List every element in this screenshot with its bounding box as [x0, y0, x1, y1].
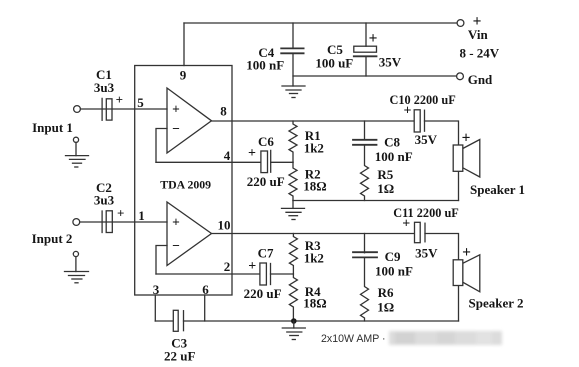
svg-text:−: −	[172, 121, 180, 136]
speaker SP1 body	[453, 145, 463, 171]
svg-text:5: 5	[137, 95, 144, 110]
svg-text:+: +	[172, 214, 180, 229]
svg-text:+: +	[117, 206, 124, 221]
node input 1 terminal	[74, 106, 81, 113]
svg-text:+: +	[172, 101, 180, 116]
speaker SP2 cone	[463, 255, 480, 292]
junction dot at ground node	[291, 318, 297, 324]
capacitor C6 line plate	[270, 150, 272, 172]
wire pin 5 input wire	[81, 108, 168, 110]
watermark blur blocks	[389, 331, 502, 345]
ground below input 2	[73, 251, 78, 256]
resistor R4 (18 ohm)	[289, 274, 297, 321]
svg-text:+: +	[248, 259, 256, 274]
resistor R3 (1k2)	[289, 234, 297, 275]
speaker SP2 body	[453, 260, 463, 286]
wire op-amp U1B feedback (inverting input to pin2 line)	[156, 246, 167, 275]
svg-text:9: 9	[180, 68, 187, 83]
svg-text:Speaker 2: Speaker 2	[468, 296, 523, 311]
node input 2 terminal	[73, 219, 80, 226]
svg-text:35V: 35V	[379, 54, 402, 69]
capacitor C4 plates	[281, 47, 303, 49]
capacitor C2 (3u3) box plate	[106, 211, 112, 233]
svg-text:22 uF: 22 uF	[164, 348, 195, 363]
capacitor C4 bottom stub through Gnd rail	[292, 53, 294, 86]
svg-text:18Ω: 18Ω	[303, 296, 326, 311]
svg-text:3u3: 3u3	[94, 80, 115, 95]
IC U1 TDA2009 package outline	[135, 66, 232, 296]
svg-text:8 - 24V: 8 - 24V	[459, 46, 499, 61]
wire C11 to speaker 2	[425, 234, 459, 322]
svg-text:3u3: 3u3	[94, 193, 115, 208]
wire pin9 drop from Vin rail to IC top	[183, 23, 185, 66]
capacitor C2 (3u3) line plate	[101, 211, 103, 233]
svg-text:C6: C6	[258, 134, 274, 149]
svg-text:1Ω: 1Ω	[377, 300, 394, 315]
svg-text:+: +	[369, 30, 378, 47]
svg-text:+: +	[462, 130, 471, 147]
svg-text:−: −	[172, 238, 180, 253]
wire pin 4 line (feedback node to C6)	[156, 161, 261, 163]
capacitor C11 line plate	[424, 223, 426, 242]
svg-text:R5: R5	[377, 167, 393, 182]
capacitor C5 (100 uF) top stub	[365, 23, 367, 46]
capacitor C1 (3u3) box plate	[106, 99, 112, 120]
svg-text:1Ω: 1Ω	[377, 181, 394, 196]
svg-text:2: 2	[224, 259, 231, 274]
svg-text:100 nF: 100 nF	[375, 149, 413, 164]
wire bottom rail C3 to speaker 2	[184, 320, 459, 322]
op-amp U1A triangle	[167, 88, 212, 153]
capacitor C8 (100 nF) top stub	[364, 121, 366, 140]
wire pin 10 output line	[212, 233, 415, 235]
node Vin terminal	[457, 20, 464, 27]
svg-text:+: +	[116, 92, 123, 107]
svg-text:Input 2: Input 2	[32, 231, 73, 246]
svg-text:C7: C7	[258, 246, 274, 261]
capacitor C8 plates	[353, 139, 377, 141]
op-amp U1B triangle	[167, 202, 212, 266]
capacitor C5 line plate	[354, 55, 377, 57]
capacitor C10 line plate	[424, 110, 426, 131]
svg-text:35V: 35V	[415, 132, 438, 147]
svg-text:Speaker 1: Speaker 1	[470, 182, 525, 197]
svg-text:10: 10	[218, 218, 231, 233]
capacitor C1 (3u3) line plate	[101, 98, 103, 120]
capacitor C9 plates	[353, 251, 377, 253]
svg-text:35V: 35V	[415, 246, 438, 261]
ground below C4	[282, 85, 305, 87]
svg-text:C8: C8	[384, 135, 400, 150]
wire pin 3 drop	[154, 295, 156, 321]
svg-text:100 nF: 100 nF	[375, 264, 413, 279]
svg-text:Gnd: Gnd	[468, 72, 493, 87]
svg-text:220 uF: 220 uF	[244, 286, 282, 301]
svg-text:C9: C9	[385, 249, 401, 264]
capacitor C10 (2200 uF) box plate	[414, 110, 420, 132]
speaker SP1 cone	[463, 140, 480, 178]
capacitor C6 (220 uF) box plate	[261, 151, 268, 173]
capacitor C4 (100 nF) top stub	[292, 23, 294, 48]
resistor R5 (1 ohm) below C8	[361, 145, 369, 201]
resistor R1 (1k2)	[289, 121, 297, 162]
svg-text:Vin: Vin	[468, 27, 489, 42]
wire C6 to R1/R2 junction	[271, 161, 293, 163]
svg-text:+: +	[404, 104, 412, 119]
wire pin 8 output line	[212, 120, 415, 122]
svg-text:100 uF: 100 uF	[315, 55, 353, 70]
svg-text:18Ω: 18Ω	[303, 179, 326, 194]
svg-text:220 uF: 220 uF	[247, 174, 285, 189]
svg-text:1k2: 1k2	[304, 251, 324, 266]
resistor R6 (1 ohm) below C9	[361, 258, 369, 322]
ground below input 1	[73, 137, 78, 142]
svg-text:1k2: 1k2	[304, 140, 324, 155]
svg-text:R6: R6	[378, 285, 394, 300]
svg-text:C10 2200 uF: C10 2200 uF	[389, 93, 455, 107]
wire bottom rail left of C3	[155, 320, 173, 322]
wire pin 6 drop	[204, 295, 206, 321]
wire C10 to speaker 1	[425, 121, 459, 201]
wire pin 1 input wire	[80, 221, 167, 223]
svg-text:TDA 2009: TDA 2009	[160, 177, 211, 191]
capacitor C7 (220 uF) box plate	[260, 263, 267, 285]
svg-text:6: 6	[202, 282, 209, 297]
svg-text:4: 4	[224, 148, 231, 163]
capacitor C3 (22 uF) box plate	[173, 310, 178, 331]
svg-text:3: 3	[153, 282, 160, 297]
wire Vin top rail	[184, 22, 457, 24]
wire C7 to R3/R4 junction	[271, 273, 294, 275]
capacitor C3 line plate	[183, 311, 185, 331]
node Gnd terminal	[457, 73, 464, 80]
wire speaker 1 bottom rail	[293, 200, 459, 202]
capacitor C5 box plate	[354, 46, 377, 52]
svg-text:+: +	[402, 217, 410, 232]
svg-text:100 nF: 100 nF	[246, 58, 284, 73]
svg-text:Input 1: Input 1	[32, 120, 73, 135]
wire Gnd rail	[293, 75, 456, 77]
resistor R2 (18 ohm)	[289, 162, 297, 200]
capacitor C5 bottom stub	[365, 56, 367, 76]
ground below R2	[292, 201, 294, 209]
svg-text:+: +	[248, 146, 256, 161]
svg-text:8: 8	[220, 104, 227, 119]
wire pin 2 line (feedback node to C7)	[156, 273, 260, 275]
capacitor C7 line plate	[270, 264, 272, 285]
wire op-amp U1A feedback (inverting input to pin4 line)	[156, 129, 167, 163]
svg-text:+: +	[462, 244, 471, 261]
svg-text:1: 1	[138, 208, 145, 223]
capacitor C9 (100 nF) top stub	[364, 234, 366, 253]
ground below junction dot	[293, 321, 295, 328]
capacitor C11 (2200 uF) box plate	[415, 222, 421, 242]
svg-text:2x10W AMP ·: 2x10W AMP ·	[321, 333, 386, 345]
